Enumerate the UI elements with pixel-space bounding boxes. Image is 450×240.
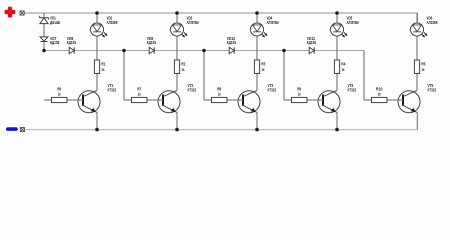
svg-text:КД105: КД105 — [147, 40, 157, 45]
svg-text:АЛ336К: АЛ336К — [427, 20, 438, 25]
svg-text:КТ315: КТ315 — [108, 88, 117, 93]
svg-text:КД105: КД105 — [50, 40, 60, 45]
svg-text:1к: 1к — [378, 92, 381, 97]
svg-text:АЛ307БМ: АЛ307БМ — [187, 20, 199, 25]
svg-text:КТ315: КТ315 — [188, 88, 197, 93]
svg-text:КТ315: КТ315 — [348, 88, 357, 93]
svg-text:R2: R2 — [181, 61, 185, 66]
svg-text:R3: R3 — [261, 61, 265, 66]
svg-text:1к: 1к — [341, 67, 345, 72]
svg-text:КД105: КД105 — [227, 40, 237, 45]
svg-text:1к: 1к — [261, 67, 265, 72]
svg-text:КТ315: КТ315 — [428, 88, 437, 93]
svg-text:КД105: КД105 — [67, 40, 77, 45]
svg-text:Д814Б: Д814Б — [50, 20, 60, 25]
svg-text:КТ315: КТ315 — [268, 88, 277, 93]
svg-text:1к: 1к — [101, 67, 105, 72]
svg-text:1к: 1к — [298, 92, 301, 97]
svg-text:1к: 1к — [421, 67, 425, 72]
svg-text:1к: 1к — [218, 92, 221, 97]
svg-text:R1: R1 — [101, 61, 105, 66]
svg-text:1к: 1к — [138, 92, 141, 97]
svg-text:КД105: КД105 — [307, 40, 317, 45]
svg-text:1к: 1к — [58, 92, 61, 97]
svg-text:1к: 1к — [181, 67, 185, 72]
svg-text:R5: R5 — [421, 61, 425, 66]
svg-text:АЛ307БМ: АЛ307БМ — [267, 20, 279, 25]
svg-text:R4: R4 — [341, 61, 345, 66]
svg-text:АЛ336К: АЛ336К — [107, 20, 118, 25]
svg-text:АЛ307БМ: АЛ307БМ — [347, 20, 359, 25]
